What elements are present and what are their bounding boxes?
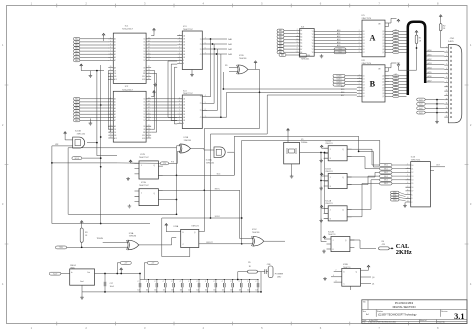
svg-text:Q2: Q2 [382, 81, 384, 83]
svg-text:12: 12 [148, 101, 150, 103]
svg-text:Sext: Sext [217, 172, 221, 175]
svg-text:CE: CE [114, 129, 116, 131]
capacitor C3 100n [156, 280, 158, 284]
vertical shared-output wires IC3 to IC4 [207, 39, 210, 97]
svg-text:21: 21 [110, 128, 112, 130]
svg-text:26: 26 [148, 137, 150, 139]
svg-text:D3: D3 [363, 84, 365, 86]
svg-text:3.1: 3.1 [454, 312, 464, 321]
svg-text:11: 11 [148, 37, 150, 39]
IC3 enable pin + ground [191, 70, 193, 74]
svg-text:Y8: Y8 [312, 52, 314, 54]
svg-text:D7: D7 [143, 60, 145, 62]
svg-text:74HC74: 74HC74 [325, 203, 333, 205]
svg-text:D7: D7 [143, 120, 145, 122]
wire IC10B lower input from left loop [52, 146, 150, 224]
title block outline [362, 300, 467, 324]
svg-text:Y2: Y2 [312, 34, 314, 36]
wire trigger gate output up to flipflop stack [234, 136, 358, 175]
svg-text:13: 13 [148, 104, 150, 106]
svg-text:104: 104 [180, 290, 183, 292]
svg-text:Q1: Q1 [382, 34, 384, 36]
wire IC9B output to IC10A [191, 149, 215, 151]
svg-text:20MHz: 20MHz [301, 142, 307, 144]
IC1 62256 SRAM [113, 33, 146, 83]
svg-text:D3: D3 [143, 108, 145, 110]
wire IC9A output to IC8A flipflop [139, 238, 176, 245]
svg-text:E: E [183, 63, 184, 65]
net label ovals on A lower inputs [334, 48, 346, 51]
svg-text:IC7A: IC7A [141, 181, 146, 184]
svg-text:CKOUT: CKOUT [206, 242, 213, 244]
svg-text:7256-256C7: 7256-256C7 [122, 89, 134, 91]
wires IC7 outputs right with junctions [163, 174, 234, 176]
wire drop from IC9D junction to IC8A region [199, 92, 260, 231]
net labels A0-A7 bus to IC1 [74, 37, 80, 40]
data bus wires IC1 to IC3 [151, 38, 177, 40]
svg-text:BD6: BD6 [341, 92, 344, 94]
feedback loop wire around IC8A [162, 218, 242, 257]
ground tie net labels to CN1 lower pins [417, 98, 426, 101]
svg-text:AD3: AD3 [337, 38, 340, 41]
svg-text:bar0: bar0 [419, 99, 422, 101]
IC2 62256 SRAM [113, 91, 146, 142]
svg-text:(C)1997 TECHNOSOFT Technology: (C)1997 TECHNOSOFT Technology [378, 314, 417, 317]
ground near IC1 lower-left [81, 70, 104, 72]
svg-text:14: 14 [148, 107, 150, 109]
svg-text:D3: D3 [143, 48, 145, 50]
svg-text:11: 11 [407, 201, 409, 203]
svg-text:D5: D5 [143, 114, 145, 116]
svg-text:D6: D6 [411, 187, 413, 189]
svg-text:23: 23 [110, 134, 112, 136]
IC8B output wires [361, 276, 372, 278]
svg-text:D1: D1 [143, 42, 145, 44]
svg-text:74HC74: 74HC74 [191, 225, 199, 227]
IC6 output wires to IC5 A inputs [314, 30, 357, 32]
svg-text:D-B25: D-B25 [448, 41, 455, 43]
svg-text:D0: D0 [143, 39, 145, 41]
svg-text:A/D1: A/D1 [428, 54, 432, 57]
VCC arrow at IC10B input [64, 132, 67, 135]
svg-text:22: 22 [148, 66, 150, 68]
capacitor C17 10uF [104, 274, 106, 282]
svg-text:AD0: AD0 [337, 29, 340, 32]
svg-text:74HCT574: 74HCT574 [361, 18, 372, 20]
net label +5V oval 1 [120, 261, 131, 264]
svg-text:IC11A: IC11A [325, 140, 331, 143]
IC5 74HCT574 register A [362, 20, 385, 57]
svg-text:2Y: 2Y [200, 103, 202, 105]
svg-text:REG1: REG1 [70, 265, 77, 267]
wire IC4 fourth output rising to bus row [207, 92, 357, 117]
resistor R3 1K pullup [80, 221, 83, 224]
svg-text:1B: 1B [183, 102, 185, 104]
svg-text:OE: OE [143, 70, 145, 72]
svg-text:D5: D5 [411, 183, 413, 185]
svg-text:16: 16 [148, 113, 150, 115]
svg-text:10: 10 [179, 59, 181, 61]
input wires to IC8B [334, 271, 342, 273]
svg-text:R3: R3 [85, 232, 87, 234]
svg-text:23: 23 [148, 128, 150, 130]
svg-text:Q2: Q2 [382, 37, 384, 39]
svg-text:IC9A: IC9A [129, 232, 134, 235]
svg-text:EN3: EN3 [393, 200, 396, 202]
svg-text:10: 10 [407, 197, 409, 199]
svg-text:3Y: 3Y [200, 49, 202, 51]
svg-text:11: 11 [179, 62, 181, 64]
svg-text:D0: D0 [143, 99, 145, 101]
svg-text:C17: C17 [110, 283, 113, 285]
svg-text:104: 104 [138, 290, 141, 292]
svg-text:D1: D1 [363, 79, 365, 81]
svg-text:D1: D1 [143, 102, 145, 104]
svg-text:23: 23 [110, 75, 112, 77]
svg-text:1Y: 1Y [200, 39, 202, 41]
svg-text:104: 104 [230, 290, 233, 292]
wire long vertical v2 [100, 65, 102, 224]
capacitor C12 100n [232, 280, 234, 284]
net label oval TRIG input [56, 246, 67, 249]
svg-text:J: J [330, 209, 331, 211]
svg-text:Y7: Y7 [312, 49, 314, 51]
svg-text:WE: WE [143, 132, 145, 134]
svg-text:D1: D1 [411, 168, 413, 170]
wire IC12B clock from stack [321, 181, 327, 242]
svg-text:74HC541: 74HC541 [301, 58, 310, 60]
CN1 pin stubs and pin circles [444, 48, 448, 117]
svg-text:P/S: P/S [163, 163, 166, 165]
IC4 74HCT157 [182, 95, 202, 129]
svg-text:16: 16 [148, 53, 150, 55]
svg-text:TRIGIN: TRIGIN [97, 238, 104, 240]
capacitor C6 100n [181, 280, 183, 284]
control wires IC1 down left side to IC2 [107, 71, 109, 130]
capacitor C10 100n [215, 280, 217, 284]
svg-text:74HC74: 74HC74 [328, 234, 336, 236]
wire R5 to LED connector [257, 271, 264, 273]
wire bus row from RD/WR junction [222, 72, 224, 89]
wires flipflop outputs to select net labels [347, 149, 379, 165]
svg-text:4B: 4B [183, 57, 185, 59]
svg-text:Q3: Q3 [382, 40, 384, 42]
svg-text:74HC74: 74HC74 [325, 143, 333, 145]
svg-text:D2: D2 [143, 45, 145, 47]
VCC arrow feeding IC1 control row [80, 64, 83, 67]
svg-text:3B: 3B [183, 51, 185, 53]
net labels D0-D7 to IC6 [277, 29, 284, 32]
svg-text:D2: D2 [363, 81, 365, 83]
svg-text:Out: Out [87, 271, 90, 274]
frame row ticks left/right [5, 85, 469, 244]
svg-text:D2: D2 [363, 37, 365, 39]
net label wires to IC8 B inputs [345, 75, 357, 77]
svg-text:74HC132: 74HC132 [206, 162, 215, 164]
svg-text:D5: D5 [363, 90, 365, 92]
svg-text:104: 104 [171, 290, 174, 292]
svg-text:R1: R1 [419, 38, 421, 40]
svg-text:4Y: 4Y [200, 117, 202, 119]
svg-text:15: 15 [446, 107, 448, 109]
svg-text:24: 24 [110, 78, 112, 80]
svg-text:WE: WE [114, 76, 116, 78]
svg-text:104: 104 [163, 290, 166, 292]
svg-text:CE: CE [114, 70, 116, 72]
svg-text:S: S [183, 60, 184, 62]
svg-text:BD4: BD4 [341, 86, 344, 88]
capacitor C1 100n [139, 280, 141, 284]
svg-text:Y1: Y1 [312, 31, 314, 33]
svg-text:A/D6: A/D6 [428, 75, 432, 78]
IC3 select staircase wires down to IC4 [168, 61, 177, 118]
svg-text:Title: Title [363, 300, 366, 303]
svg-text:IC10B: IC10B [75, 130, 81, 132]
ground below IC2 label area [153, 83, 157, 87]
svg-text:File:: File: [363, 322, 367, 324]
svg-text:TRD1: TRD1 [338, 52, 342, 54]
svg-text:J: J [330, 177, 331, 179]
svg-text:D7: D7 [363, 52, 365, 54]
svg-text:74HCT157: 74HCT157 [183, 29, 194, 31]
svg-text:11: 11 [148, 97, 150, 99]
svg-text:R4: R4 [382, 241, 384, 243]
VCC arrow above IC2 [153, 91, 156, 94]
net label lower to IC6 [279, 54, 286, 57]
svg-text:J: J [330, 149, 331, 151]
svg-text:Y5: Y5 [312, 43, 314, 45]
svg-text:bar0: bar0 [419, 112, 422, 114]
IC13 input wires [392, 164, 406, 166]
svg-text:D2: D2 [411, 172, 413, 174]
ground symbol mid-left column [89, 119, 91, 122]
svg-text:AD5: AD5 [337, 44, 340, 47]
+5V rail over capacitor row [140, 279, 258, 281]
VCC arrow on +5V rail [120, 268, 123, 271]
capacitor C13 100n [240, 280, 242, 284]
svg-text:13: 13 [446, 98, 448, 100]
svg-text:OE: OE [143, 129, 145, 131]
svg-text:SEL5: SEL5 [384, 183, 388, 185]
svg-text:IC9D: IC9D [239, 55, 244, 57]
svg-text:D3: D3 [411, 176, 413, 178]
svg-text:2KHz: 2KHz [396, 249, 412, 256]
svg-text:15: 15 [148, 50, 150, 52]
wire IC10A output down to trigger select net [227, 152, 234, 175]
svg-text:74HCT151: 74HCT151 [411, 159, 422, 161]
svg-text:24: 24 [110, 137, 112, 139]
svg-text:20: 20 [110, 66, 112, 68]
capacitor C2 100n [147, 280, 149, 284]
svg-text:Q5: Q5 [382, 90, 384, 92]
wire vertical IC7B branch down to loop [176, 146, 178, 215]
wire bus row three to B inputs [267, 94, 357, 96]
svg-text:D6: D6 [143, 117, 145, 119]
svg-text:Q7: Q7 [382, 52, 384, 54]
svg-text:74HCT574: 74HCT574 [361, 63, 372, 65]
net label oval WCLK [72, 157, 82, 160]
svg-text:Q7: Q7 [382, 96, 384, 98]
ground rail under regulator [82, 291, 261, 293]
svg-text:10: 10 [446, 85, 448, 87]
svg-text:15: 15 [148, 110, 150, 112]
REG1 ground pin wire [81, 285, 83, 292]
svg-text:74HCT157: 74HCT157 [183, 93, 194, 95]
IC13 ground [404, 203, 407, 204]
svg-text:IC9B: IC9B [184, 137, 189, 139]
svg-text:Q0: Q0 [372, 277, 374, 279]
shared control wires IC1 to IC2 right side [151, 71, 155, 130]
svg-text:14: 14 [446, 103, 448, 105]
svg-text:WE: WE [143, 73, 145, 75]
IC8B VCC pin with arrow [361, 268, 369, 270]
svg-text:14: 14 [148, 47, 150, 49]
svg-text:D7: D7 [411, 191, 413, 193]
gate IC10A 74HC132 [214, 147, 225, 158]
svg-text:IC8A: IC8A [174, 225, 179, 228]
svg-text:EXTC: EXTC [215, 188, 221, 190]
wire long vertical v1 [97, 71, 117, 156]
svg-text:Q6: Q6 [382, 93, 384, 95]
svg-text:74HC74: 74HC74 [325, 171, 333, 173]
svg-text:AD2: AD2 [337, 35, 340, 38]
svg-text:3B: 3B [183, 114, 185, 116]
IC13 output wire [430, 166, 445, 168]
svg-text:WE: WE [114, 135, 116, 137]
svg-text:Sheet of: Sheet of [420, 319, 427, 322]
svg-text:D1: D1 [363, 34, 365, 36]
capacitor C7 100n [190, 280, 192, 284]
net label power input oval [49, 272, 61, 275]
svg-text:104: 104 [222, 290, 225, 292]
net label ovals lower group [391, 191, 400, 193]
capacitor C9 100n [206, 280, 208, 284]
svg-text:J: J [141, 165, 142, 167]
svg-text:R2: R2 [443, 25, 445, 27]
IC13 74HCT151 [411, 162, 431, 207]
svg-text:11: 11 [446, 90, 448, 92]
svg-text:POWER: POWER [275, 273, 284, 275]
svg-text:IC7B: IC7B [140, 154, 145, 156]
svg-text:D4: D4 [411, 180, 413, 182]
data bus wires IC2 to IC4 [151, 98, 177, 100]
IC3 output wires with DA0-DA3 labels [207, 38, 227, 40]
svg-text:D0: D0 [411, 165, 413, 167]
svg-text:17: 17 [148, 116, 150, 118]
wire IC12A clock feed [325, 153, 329, 214]
svg-text:D4: D4 [363, 87, 365, 89]
svg-text:21: 21 [110, 69, 112, 71]
svg-text:4Y: 4Y [200, 54, 202, 56]
svg-text:AD1: AD1 [337, 32, 340, 35]
svg-text:Gnd: Gnd [80, 281, 83, 283]
svg-text:Y4: Y4 [312, 40, 314, 42]
svg-text:74HCT107: 74HCT107 [139, 185, 150, 187]
svg-text:Q3: Q3 [382, 84, 384, 86]
svg-text:bar0: bar0 [419, 104, 422, 106]
wire REG1 output rail +5V [95, 274, 141, 280]
svg-text:74HC132: 74HC132 [77, 134, 86, 136]
svg-text:Number: Number [377, 310, 383, 313]
svg-text:AD4: AD4 [337, 41, 340, 44]
svg-text:D4: D4 [143, 51, 145, 53]
svg-text:A/D3: A/D3 [428, 62, 432, 65]
svg-text:Revision: Revision [441, 311, 448, 313]
svg-text:24: 24 [148, 131, 150, 133]
svg-text:D5: D5 [363, 46, 365, 48]
svg-text:Q1: Q1 [382, 79, 384, 81]
wire IC12B output to R4 [350, 240, 376, 248]
svg-text:A/D4: A/D4 [428, 67, 432, 70]
wire LED return to ground rail [260, 272, 262, 292]
thick bus line hook [408, 22, 425, 95]
svg-text:D4: D4 [363, 43, 365, 45]
svg-text:BD5: BD5 [341, 89, 344, 91]
svg-text:12: 12 [446, 94, 448, 96]
svg-text:26: 26 [148, 78, 150, 80]
svg-text:104: 104 [256, 290, 259, 292]
svg-text:25: 25 [148, 134, 150, 136]
svg-text:23: 23 [148, 69, 150, 71]
wire IC7A second output to IC9C path [163, 190, 253, 238]
svg-text:Q4: Q4 [382, 43, 384, 45]
svg-text:IC9C: IC9C [252, 229, 257, 231]
frame column ticks top/bottom [57, 4, 409, 326]
svg-text:A/D2: A/D2 [428, 58, 432, 61]
IC3 74HCT157 [182, 31, 202, 70]
VCC pullup at IC9D output [254, 61, 257, 64]
svg-text:LED: LED [277, 277, 282, 279]
svg-text:SEL2: SEL2 [384, 172, 388, 174]
wire IC9C output [264, 240, 285, 242]
svg-text:B: B [370, 80, 376, 89]
svg-text:D5: D5 [143, 54, 145, 56]
svg-text:104: 104 [154, 290, 157, 292]
ground left of IC8B [323, 277, 327, 281]
svg-text:12: 12 [148, 41, 150, 43]
svg-text:Q6: Q6 [382, 49, 384, 51]
svg-text:3Y: 3Y [200, 110, 202, 112]
svg-text:bar0: bar0 [419, 108, 422, 110]
IC8B bottom pin ground [350, 286, 352, 290]
svg-text:S: S [183, 123, 184, 125]
svg-text:SEL0: SEL0 [384, 165, 388, 167]
svg-text:PC-DSO4 MK3: PC-DSO4 MK3 [395, 301, 414, 305]
svg-text:CE: CE [143, 67, 145, 69]
net label +5V oval 2 [147, 261, 158, 264]
svg-text:74HC86: 74HC86 [184, 140, 192, 142]
svg-text:OE: OE [114, 73, 116, 75]
svg-text:DIGITAL SECTION: DIGITAL SECTION [393, 305, 416, 309]
svg-text:D3: D3 [363, 40, 365, 42]
svg-text:104: 104 [247, 290, 250, 292]
svg-text:1B: 1B [183, 39, 185, 41]
svg-text:IC12A: IC12A [325, 200, 331, 203]
wire IC10B output to vertical v1 [87, 142, 97, 144]
ground right of IC6 [320, 54, 324, 58]
svg-text:22: 22 [110, 131, 112, 133]
svg-text:BD7: BD7 [341, 95, 344, 97]
X1 ground [291, 164, 293, 175]
svg-text:4B: 4B [183, 120, 185, 122]
svg-text:B: B [411, 198, 412, 200]
svg-text:CN1: CN1 [450, 38, 455, 40]
svg-text:J: J [141, 193, 142, 195]
svg-text:1Y: 1Y [200, 96, 202, 98]
capacitor C11 100n [223, 280, 225, 284]
svg-text:2B: 2B [183, 108, 185, 110]
svg-text:A/D5: A/D5 [428, 71, 432, 74]
